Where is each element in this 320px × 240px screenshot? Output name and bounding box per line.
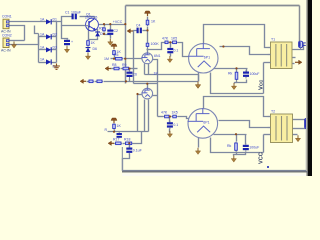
- svg-text:0.1uF: 0.1uF: [133, 149, 142, 153]
- wire R19 R20 link: [171, 116, 172, 118]
- wire tap to C6: [129, 69, 131, 72]
- wire to V1b grid: [138, 94, 142, 96]
- svg-text:T2: T2: [271, 110, 275, 114]
- wire T2 secondary 3: [293, 134, 298, 136]
- wire R6 to R7: [147, 27, 149, 43]
- wire T2 pin3 stub: [268, 134, 271, 136]
- ground at T2: [295, 135, 300, 142]
- wire from power bar: [147, 17, 149, 20]
- resistor R7: [146, 42, 149, 48]
- wire V3 plate to T2: [204, 97, 268, 117]
- power bar P2: [111, 118, 117, 123]
- wire +VCC vertical rail: [125, 6, 127, 84]
- wire bottom return rail: [123, 170, 307, 172]
- svg-text:1K: 1K: [91, 41, 96, 45]
- junction C10 tap: [128, 142, 130, 144]
- wire C7 to ground: [170, 54, 172, 57]
- wire bleeder to ground: [105, 33, 111, 39]
- resistor R5: [115, 57, 124, 60]
- wire T1 pin1 stub: [268, 47, 271, 49]
- junction divider: [103, 33, 105, 35]
- ground at C3: [64, 46, 69, 53]
- svg-text:100uF: 100uF: [71, 11, 81, 15]
- wire C2 tap: [110, 25, 112, 30]
- svg-text:6P1: 6P1: [204, 56, 210, 60]
- wire C6 to bus: [129, 79, 131, 82]
- ground at bridge: [53, 64, 60, 70]
- junction R4: [113, 58, 115, 60]
- wire drop to output connector J1: [299, 6, 301, 42]
- power bar P1: [145, 11, 151, 16]
- wire arrow to R8: [111, 68, 114, 70]
- wire T2 pin1 stub: [268, 116, 271, 118]
- resistor R17: [115, 142, 122, 145]
- wire T1 secondary to J1: [293, 44, 304, 50]
- wire R8 to R9: [121, 68, 123, 70]
- wire heater to ground: [198, 75, 200, 82]
- ground at C2: [108, 39, 113, 46]
- wire arrow stub: [87, 81, 89, 83]
- capacitor C3: [64, 38, 70, 47]
- ground at CON2: [11, 42, 16, 49]
- capacitor C10: [126, 146, 132, 155]
- resistor R1: [87, 40, 90, 47]
- svg-text:D3: D3: [53, 46, 58, 50]
- resistor R8: [113, 67, 120, 70]
- wire to V3 grid: [178, 117, 189, 119]
- wire V1a plate to grid chain: [147, 43, 165, 50]
- svg-text:1A: 1A: [40, 46, 45, 50]
- wire bleeder tap: [104, 25, 106, 27]
- svg-text:R2: R2: [99, 27, 104, 31]
- wire bridge left rail: [38, 37, 40, 63]
- wire to C8: [246, 69, 248, 72]
- svg-text:+VCC: +VCC: [113, 20, 123, 24]
- capacitor C2: [107, 28, 113, 37]
- junction screen: [222, 45, 224, 47]
- svg-text:R17: R17: [113, 138, 119, 142]
- capacitor C1: [72, 14, 77, 20]
- wire to lower grid chain: [158, 116, 164, 118]
- beam tetrode V3: [188, 108, 218, 138]
- wire return up to J2: [306, 129, 308, 171]
- svg-text:47K: 47K: [161, 111, 168, 115]
- svg-text:C1: C1: [65, 11, 70, 15]
- wire T2 secondary 1: [293, 119, 306, 121]
- port arrow IN-R: [108, 141, 114, 145]
- junction +VCC: [124, 23, 126, 25]
- wire to C9: [245, 135, 247, 145]
- resistor R15: [235, 142, 238, 152]
- junction C7 tap: [169, 41, 171, 43]
- wire tap to C10: [129, 144, 131, 148]
- wire grid stub: [111, 58, 117, 60]
- resistor R2: [103, 27, 106, 32]
- wire Q1 to +VCC node: [99, 24, 126, 26]
- wire R12 to R13: [169, 42, 173, 44]
- capacitor C11: [167, 121, 173, 130]
- wire D4 anode: [39, 62, 47, 64]
- wire to filter cap C3: [62, 26, 68, 40]
- wire C10 down to return: [123, 154, 130, 171]
- svg-text:R8: R8: [112, 63, 117, 67]
- resistor R9: [122, 67, 130, 70]
- ground cathode lower: [231, 156, 236, 163]
- svg-text:1A: 1A: [40, 58, 45, 62]
- wire V1b plate up: [147, 84, 149, 89]
- diode D4: [46, 59, 51, 64]
- resistor R11: [96, 80, 103, 83]
- svg-text:1K: 1K: [154, 72, 159, 76]
- wire lower link bus: [134, 83, 158, 85]
- wire plate resistor to tube V1a: [147, 48, 149, 53]
- capacitor C8: [243, 70, 249, 79]
- connector CON1: [1, 15, 12, 34]
- wire T2 pin3: [264, 134, 268, 136]
- wire V2 screen to T1: [220, 47, 268, 55]
- wire coupling to lower rail: [134, 31, 137, 84]
- wire RC to ground: [235, 83, 237, 84]
- ground at divider: [85, 53, 90, 60]
- svg-text:0.1: 0.1: [174, 49, 179, 53]
- wire Q1 emitter to zener D5: [97, 30, 98, 32]
- svg-text:D1: D1: [53, 18, 58, 22]
- wire Q1 collector up: [94, 17, 96, 19]
- wire C11 to ground: [169, 129, 171, 133]
- wire V3 cathode to RC: [214, 134, 247, 136]
- wire lower row2 up: [133, 132, 142, 144]
- connector J2: [305, 118, 309, 128]
- resistor R19: [164, 115, 170, 118]
- ground V2 heater: [195, 82, 200, 89]
- svg-text:47K: 47K: [162, 37, 169, 41]
- wire T1 pin2 stub: [268, 54, 271, 56]
- svg-text:6P1: 6P1: [203, 121, 209, 125]
- wire arrow stub low: [114, 143, 115, 145]
- wire V2 plate to T1: [204, 25, 268, 48]
- junction V1b plate: [146, 83, 148, 85]
- svg-text:100uF: 100uF: [250, 72, 260, 76]
- transistor Q1: [85, 12, 98, 31]
- wire V1b heater leg1: [144, 100, 146, 132]
- svg-text:R9: R9: [122, 63, 127, 67]
- junction C6 tap: [128, 67, 130, 69]
- wire V1b cathode: [153, 95, 158, 97]
- wire C1 to Q1 collector: [80, 16, 95, 18]
- connector CON2: [1, 34, 12, 53]
- port arrow IN-B: [80, 79, 86, 83]
- ground V3 heater: [195, 148, 200, 155]
- svg-text:1K5: 1K5: [172, 111, 178, 115]
- wire T1 secondary 2: [293, 57, 296, 59]
- ground heater: [195, 82, 200, 89]
- resistor R13: [172, 41, 178, 44]
- wire zener D5 to divider: [89, 38, 98, 40]
- svg-text:1A: 1A: [40, 33, 45, 37]
- capacitor C4: [137, 28, 142, 34]
- junction rail heater: [125, 80, 127, 82]
- svg-text:Rk: Rk: [227, 144, 232, 148]
- resistor R6: [146, 19, 149, 26]
- svg-text:VCC: VCC: [259, 152, 265, 164]
- diode D2: [46, 34, 51, 39]
- wire RC to ground low: [234, 155, 237, 156]
- svg-text:+: +: [71, 40, 73, 44]
- port arrow IN-A: [127, 29, 133, 33]
- wire to R14: [236, 69, 238, 72]
- svg-text:T1: T1: [271, 38, 275, 42]
- svg-text:CON2: CON2: [2, 34, 12, 38]
- wire D4 cathode: [52, 62, 57, 64]
- svg-text:CON1: CON1: [2, 15, 12, 19]
- wire jog to D2 anode: [35, 26, 39, 34]
- wire T1 secondary 3: [293, 63, 295, 65]
- wire V1b grid feed down: [137, 95, 139, 132]
- svg-text:AC-IN: AC-IN: [1, 49, 11, 53]
- svg-text:100uF: 100uF: [249, 146, 259, 150]
- svg-text:100K: 100K: [151, 42, 160, 46]
- wire D2 cathode: [52, 36, 57, 38]
- svg-text:1K: 1K: [117, 124, 122, 128]
- wire D3 cathode: [52, 49, 57, 51]
- resistor R18: [125, 142, 133, 145]
- transformer T1: [271, 42, 293, 69]
- svg-text:R5: R5: [114, 53, 119, 57]
- svg-text:C4: C4: [136, 24, 141, 28]
- junction V1b grid: [136, 93, 138, 95]
- svg-text:D6: D6: [93, 47, 98, 51]
- wire V1a cathode down to lower grid chain: [153, 60, 158, 117]
- wire to V1a grid: [124, 58, 142, 60]
- wire heater leg 1: [144, 64, 146, 75]
- connector J1: [299, 41, 306, 49]
- wire to filter cap C1: [62, 17, 72, 22]
- svg-text:6N1: 6N1: [154, 54, 160, 58]
- wire T2 pin2 stub: [268, 127, 271, 129]
- wire T2 secondary 2: [293, 128, 306, 130]
- svg-text:0.1: 0.1: [173, 123, 178, 127]
- junction R15 top: [235, 133, 237, 135]
- capacitor C6: [127, 70, 133, 79]
- power bar P3: [111, 44, 117, 49]
- ground cathode upper: [231, 83, 236, 90]
- resistor R10: [88, 80, 94, 83]
- zener diode D6: [86, 47, 91, 54]
- wire T2 Vcc drop: [263, 135, 265, 153]
- wire CON2 pin1 stub: [10, 40, 15, 42]
- junction C2 tap: [109, 23, 111, 25]
- wire Q1 base divider: [88, 26, 90, 40]
- ground at C11: [167, 131, 172, 138]
- wire AC line 2 down: [10, 26, 25, 41]
- junction C11 tap: [169, 115, 171, 117]
- capacitor C9: [243, 143, 249, 152]
- svg-text:1K5: 1K5: [171, 37, 177, 41]
- wire cap C4 to chain: [143, 30, 148, 32]
- wire RC bottom: [237, 80, 247, 83]
- wire tap to C11: [169, 117, 171, 123]
- wire to R15: [236, 135, 238, 142]
- wire V2 cathode return: [211, 73, 264, 94]
- svg-text:1M: 1M: [104, 57, 109, 61]
- wire lower row1 bus: [108, 131, 149, 133]
- wire T1 pin3 stub: [268, 62, 271, 64]
- wire heater return bus: [104, 81, 199, 83]
- diode D1: [46, 19, 51, 24]
- junction R16: [113, 131, 115, 133]
- zener diode D5: [95, 31, 100, 37]
- resistor R4: [113, 50, 116, 56]
- junction C4: [146, 29, 148, 31]
- junction rail grid row: [124, 58, 126, 60]
- wire top rail: [126, 5, 300, 7]
- wire RC bottom low: [237, 152, 246, 155]
- svg-text:Rk: Rk: [228, 72, 233, 76]
- wire R16 to bus: [114, 130, 116, 132]
- wire T1 Vcc drop: [263, 63, 265, 94]
- triode V1b: [142, 88, 153, 99]
- wire T1 pin3: [264, 62, 268, 64]
- svg-text:Vcc: Vcc: [259, 79, 265, 90]
- resistor R14: [235, 71, 238, 81]
- wire D2 anode: [39, 36, 47, 38]
- svg-text:C6: C6: [133, 73, 138, 77]
- wire V3 heater leg: [198, 138, 200, 148]
- wire R17 R18 link: [123, 143, 125, 145]
- label pin mark: [267, 166, 269, 168]
- wire V1b heater leg2: [148, 100, 150, 132]
- beam tetrode V2: [188, 43, 218, 73]
- wire heater leg 2: [148, 64, 150, 75]
- wire AC line 1: [10, 21, 47, 23]
- port arrow OUT-A: [295, 60, 302, 64]
- transformer T2: [271, 114, 293, 143]
- wire tap to C7: [170, 43, 172, 48]
- junction R2 tap: [103, 23, 105, 25]
- resistor R20: [172, 115, 178, 118]
- svg-text:R18: R18: [124, 138, 130, 142]
- resistor R12: [164, 41, 169, 44]
- wire to V2 grid: [178, 43, 189, 57]
- junction R14 top: [235, 67, 237, 69]
- wire V2 heater leg: [198, 73, 200, 82]
- svg-text:1A: 1A: [40, 18, 45, 22]
- wire R10 R11 link: [95, 81, 97, 83]
- svg-text:C2: C2: [114, 29, 119, 33]
- wire rectifier output to Q1 base: [52, 22, 86, 26]
- wire CON2 pin1: [15, 40, 25, 42]
- svg-text:2N3055: 2N3055: [85, 16, 97, 20]
- diode D3: [46, 47, 51, 52]
- wire CON2 pin2 to bridge: [10, 34, 39, 45]
- resistor R16: [113, 123, 116, 130]
- wire R4 to grid row: [114, 56, 116, 59]
- wire V3 screen to T2: [219, 121, 268, 128]
- capacitor C7: [167, 46, 173, 55]
- wire V3 cathode return: [211, 138, 264, 153]
- svg-text:D2: D2: [53, 33, 58, 37]
- wire bridge right rail: [56, 22, 58, 63]
- ground at C7: [167, 56, 172, 63]
- triode V1a: [141, 52, 152, 63]
- wire D3 anode: [39, 49, 47, 51]
- svg-text:1K: 1K: [151, 20, 156, 24]
- port arrow IN-L: [105, 66, 111, 70]
- wire heater bus upper: [145, 74, 199, 76]
- wire V2 cathode to RC: [214, 68, 248, 70]
- capacitor C12: [117, 132, 122, 138]
- wire R9 right: [130, 68, 138, 70]
